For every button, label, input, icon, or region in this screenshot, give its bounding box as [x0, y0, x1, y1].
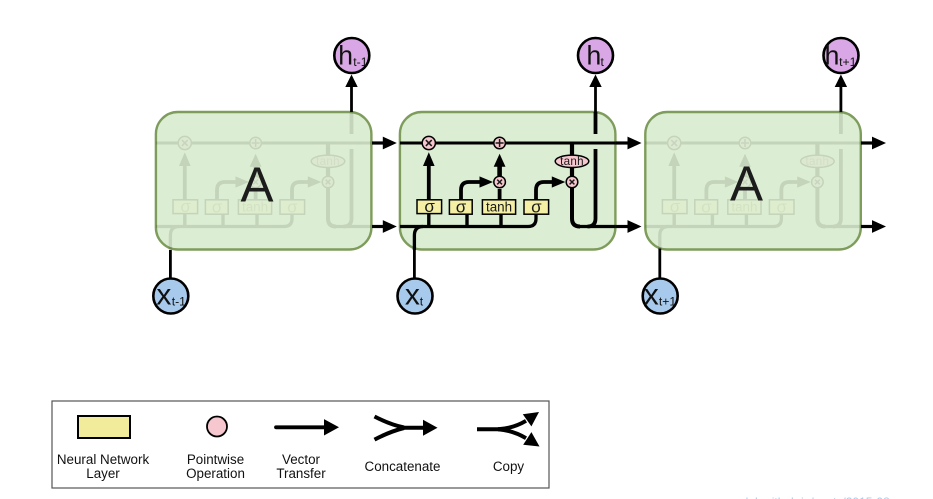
svg-text:t-1: t-1	[353, 55, 367, 69]
svg-text:h: h	[825, 41, 840, 71]
svg-text:Pointwise: Pointwise	[187, 452, 244, 467]
svg-text:Concatenate: Concatenate	[365, 459, 441, 474]
svg-text:A: A	[730, 157, 763, 212]
svg-text:h: h	[338, 41, 353, 71]
svg-text:t+1: t+1	[659, 294, 677, 308]
svg-text:Vector: Vector	[282, 452, 321, 467]
svg-text:x: x	[644, 278, 659, 311]
svg-text:x: x	[405, 278, 420, 311]
svg-text:h: h	[587, 41, 602, 71]
svg-text:t-1: t-1	[172, 294, 186, 308]
svg-text:Copy: Copy	[493, 459, 525, 474]
svg-text:Operation: Operation	[186, 466, 245, 481]
svg-text:Transfer: Transfer	[276, 466, 326, 481]
svg-text:Layer: Layer	[86, 466, 120, 481]
svg-text:t+1: t+1	[839, 55, 857, 69]
svg-text:colah.github.io/posts/2015-08: colah.github.io/posts/2015-08	[733, 495, 890, 499]
svg-text:x: x	[156, 278, 171, 311]
svg-text:Neural Network: Neural Network	[57, 452, 150, 467]
svg-text:A: A	[240, 158, 273, 213]
